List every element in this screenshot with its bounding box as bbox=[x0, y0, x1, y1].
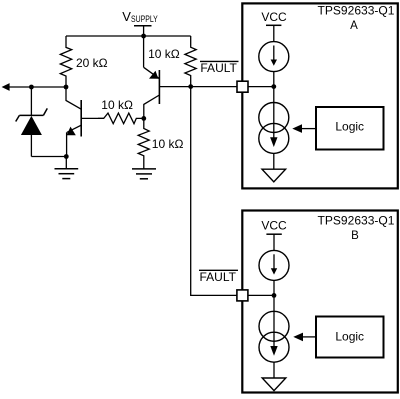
pin FAULT A square bbox=[237, 81, 248, 92]
svg-text:FAULT: FAULT bbox=[200, 61, 237, 75]
IC box A TPS92633-Q1 bbox=[242, 3, 397, 188]
svg-text:10 kΩ: 10 kΩ bbox=[148, 47, 180, 61]
node VSUPPLY junction dot bbox=[141, 34, 146, 39]
svg-text:VCC: VCC bbox=[261, 218, 287, 232]
wire node to sink bbox=[273, 87, 275, 103]
resistor R4 10k pullup bbox=[185, 36, 196, 87]
resistor R2 10k base bbox=[98, 113, 144, 124]
transistor Q2 PNP right bbox=[144, 36, 191, 118]
svg-text:FAULT: FAULT bbox=[200, 270, 237, 284]
ground triangle A bbox=[262, 169, 286, 182]
current source U1B top bbox=[259, 250, 289, 280]
wire sink to ground B bbox=[273, 362, 275, 378]
node zener top junction bbox=[29, 85, 34, 90]
svg-text:10 kΩ: 10 kΩ bbox=[101, 98, 133, 112]
wire source to node B bbox=[273, 280, 275, 295]
IC box B TPS92633-Q1 bbox=[242, 211, 397, 393]
label FAULT B overline bbox=[199, 269, 238, 271]
current sink B circles bbox=[259, 311, 289, 362]
zener diode D1 bbox=[16, 87, 48, 157]
wire FAULT A to pin bbox=[191, 86, 237, 88]
svg-text:Logic: Logic bbox=[335, 120, 364, 134]
Logic box A bbox=[316, 107, 384, 150]
svg-text:TPS92633-Q1: TPS92633-Q1 bbox=[318, 216, 395, 228]
svg-text:A: A bbox=[350, 20, 358, 32]
VCC A terminal bar bbox=[266, 24, 281, 26]
node FAULT A bbox=[188, 84, 193, 89]
svg-text:VCC: VCC bbox=[261, 10, 287, 24]
wire pin to node B internal bbox=[248, 294, 274, 296]
wire fault bus vertical bbox=[191, 87, 237, 296]
pin FAULT B square bbox=[237, 290, 248, 301]
V_SUPPLY terminal bar bbox=[134, 26, 152, 36]
svg-text:B: B bbox=[351, 230, 359, 242]
node internal A bbox=[271, 84, 276, 89]
Logic box B bbox=[316, 317, 384, 358]
ground triangle B bbox=[262, 378, 286, 391]
arrowhead left bbox=[2, 83, 10, 91]
svg-text:20 kΩ: 20 kΩ bbox=[76, 56, 108, 70]
resistor R1 20k bbox=[60, 36, 71, 87]
current source U1A top bbox=[259, 42, 289, 72]
resistor R3 10k pulldown bbox=[138, 118, 149, 168]
svg-text:Logic: Logic bbox=[335, 329, 364, 343]
wire left output with arrow bbox=[9, 86, 66, 88]
ground left bbox=[55, 157, 79, 179]
wire sink to ground A bbox=[273, 153, 275, 169]
node 20k/collector junction bbox=[64, 85, 69, 90]
svg-text:10 kΩ: 10 kΩ bbox=[152, 137, 184, 151]
node internal B bbox=[272, 293, 277, 298]
label FAULT A overline bbox=[200, 60, 239, 62]
wire top supply rail bbox=[66, 35, 191, 37]
current sink A circles bbox=[259, 103, 289, 154]
node base/resistor junction bbox=[141, 116, 146, 121]
node emitter/ground junction bbox=[64, 154, 69, 159]
wire bottom left bbox=[31, 156, 66, 158]
transistor Q1 PNP left bbox=[66, 87, 104, 157]
arrow Logic B to sink bbox=[303, 336, 317, 338]
ground mid bbox=[132, 169, 156, 179]
wire source to node bbox=[273, 72, 275, 87]
svg-text:TPS92633-Q1: TPS92633-Q1 bbox=[318, 5, 395, 17]
wire node to sink B bbox=[273, 295, 275, 311]
VCC B terminal bar bbox=[266, 233, 281, 235]
arrow Logic A to sink bbox=[302, 128, 317, 130]
wire pin to node A internal bbox=[248, 86, 274, 88]
